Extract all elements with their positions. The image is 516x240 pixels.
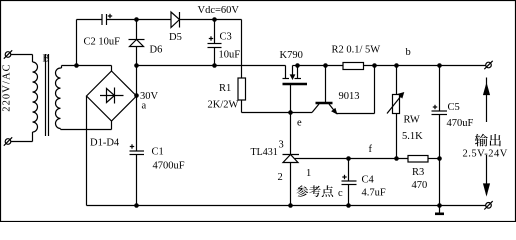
bridge rectifier D1-D4 — [87, 71, 137, 121]
capacitor C2 — [84, 14, 121, 48]
wire — [299, 158, 408, 160]
svg-text:470: 470 — [412, 180, 428, 191]
junction (source node) — [295, 63, 300, 68]
svg-text:3: 3 — [279, 140, 284, 151]
label 5.1K — [402, 131, 423, 142]
label B — [43, 54, 50, 65]
svg-text:470uF: 470uF — [447, 118, 474, 129]
svg-text:C2 10uF: C2 10uF — [84, 37, 121, 48]
svg-text:C4: C4 — [362, 175, 375, 186]
svg-text:f: f — [369, 144, 373, 155]
wire — [439, 159, 441, 206]
node b — [406, 47, 411, 58]
wire — [62, 66, 112, 72]
junction — [394, 63, 399, 68]
capacitor C1 — [130, 96, 185, 206]
svg-text:B: B — [43, 54, 50, 65]
svg-text:C5: C5 — [448, 102, 460, 113]
junction — [134, 203, 139, 208]
label TL431 — [251, 147, 278, 158]
svg-text:9013: 9013 — [339, 91, 360, 102]
resistor R1 — [208, 78, 246, 111]
label D1-D4 — [90, 138, 120, 149]
svg-text:R1: R1 — [219, 83, 231, 94]
node a (30V) — [134, 91, 158, 112]
wire — [86, 96, 88, 206]
label 2.5V-24V — [463, 149, 508, 160]
svg-text:4.7uF: 4.7uF — [362, 188, 386, 199]
svg-text:Vdc=60V: Vdc=60V — [198, 5, 240, 16]
resistor R2 — [332, 45, 381, 70]
svg-text:c: c — [338, 188, 343, 199]
label pin 2 — [278, 172, 283, 183]
wire — [87, 205, 486, 207]
label RW — [404, 115, 420, 126]
capacitor C3 — [208, 20, 241, 66]
junction — [346, 203, 351, 208]
svg-text:D5: D5 — [169, 32, 182, 43]
transformer B primary winding — [33, 62, 38, 132]
junction — [437, 203, 442, 208]
junction — [437, 63, 442, 68]
svg-text:2.5V-24V: 2.5V-24V — [463, 149, 508, 160]
terminal J3 output + — [484, 61, 492, 69]
diode D5 — [171, 12, 180, 28]
svg-text:TL431: TL431 — [251, 147, 278, 158]
wire — [11, 55, 33, 63]
svg-text:4700uF: 4700uF — [153, 161, 185, 172]
wire — [336, 66, 374, 114]
wire — [291, 112, 313, 114]
svg-text:C1: C1 — [152, 147, 164, 158]
resistor R3 — [408, 156, 428, 192]
label D6 — [150, 45, 163, 56]
svg-text:RW: RW — [404, 115, 420, 126]
junction — [288, 203, 293, 208]
wire — [107, 19, 172, 21]
wire — [11, 132, 33, 142]
junction — [437, 156, 442, 161]
junction — [212, 63, 217, 68]
capacitor C5 — [432, 66, 474, 159]
junction — [346, 156, 351, 161]
label 参考点 c — [296, 185, 343, 199]
wire — [61, 66, 62, 69]
label Vdc=60V — [198, 5, 240, 16]
svg-text:e: e — [297, 118, 302, 129]
svg-text:K790: K790 — [280, 50, 303, 61]
wire — [364, 65, 486, 67]
output arrow up — [484, 78, 490, 123]
MOSFET K790 — [283, 66, 308, 114]
svg-text:220V/AC: 220V/AC — [2, 63, 13, 112]
label 9013 — [339, 91, 360, 102]
junction — [212, 17, 217, 22]
ground — [435, 206, 444, 214]
svg-text:10uF: 10uF — [219, 50, 241, 61]
junction — [134, 63, 139, 68]
node e — [288, 110, 302, 128]
label 输出 — [475, 134, 501, 147]
svg-text:R3: R3 — [412, 167, 424, 178]
terminal J2 AC input (bottom) — [4, 137, 12, 145]
transformer B core — [46, 54, 49, 136]
svg-text:2: 2 — [278, 172, 283, 183]
svg-text:D6: D6 — [150, 45, 163, 56]
label pin 3 — [279, 140, 284, 151]
terminal J4 output - — [484, 201, 492, 209]
junction — [134, 17, 139, 22]
junction — [323, 63, 328, 68]
junction — [372, 63, 377, 68]
svg-text:2K/2W: 2K/2W — [208, 100, 239, 111]
label 220V/AC — [2, 63, 13, 112]
label K790 — [280, 50, 303, 61]
wire — [298, 65, 344, 67]
wire — [136, 66, 138, 96]
transistor Q1 9013 — [312, 66, 337, 114]
diode D6 — [129, 20, 145, 66]
wire — [61, 121, 112, 130]
svg-text:R2 0.1/ 5W: R2 0.1/ 5W — [332, 45, 381, 56]
potentiometer RW — [387, 66, 403, 159]
node f — [369, 144, 373, 155]
svg-text:1: 1 — [306, 168, 311, 179]
wire — [428, 158, 440, 160]
wire — [241, 20, 243, 79]
label D5 — [169, 32, 182, 43]
capacitor C4 — [342, 159, 386, 206]
svg-text:D1-D4: D1-D4 — [90, 138, 120, 149]
svg-text:b: b — [406, 47, 411, 58]
wire — [242, 100, 291, 113]
svg-text:C3: C3 — [220, 32, 232, 43]
shunt regulator TL431 — [283, 113, 300, 206]
wire — [77, 20, 103, 66]
svg-text:a: a — [142, 101, 147, 112]
junction (C2 tap) — [74, 63, 79, 68]
label pin 1 — [306, 168, 311, 179]
transformer B secondary winding — [55, 68, 60, 129]
terminal J1 AC input (top) — [4, 50, 12, 58]
wire — [180, 19, 242, 21]
junction — [394, 156, 399, 161]
wire — [137, 65, 286, 67]
output arrow down — [484, 155, 490, 195]
svg-text:5.1K: 5.1K — [402, 131, 423, 142]
